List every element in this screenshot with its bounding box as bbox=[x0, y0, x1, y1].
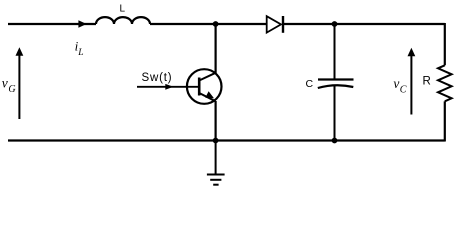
wire diode to top-right corner bbox=[283, 23, 445, 25]
node junction dot bottom capacitor bbox=[332, 138, 338, 144]
voltage arrow vG bbox=[16, 47, 24, 119]
Sw(t) gate drive arrow bbox=[137, 84, 199, 90]
node junction dot bottom emitter bbox=[213, 138, 219, 144]
wire right edge lower bbox=[444, 101, 446, 141]
ground bbox=[207, 141, 225, 185]
diode D1 bbox=[267, 16, 283, 33]
voltage arrow vC bbox=[408, 48, 416, 115]
inductor L bbox=[96, 17, 150, 24]
svg-text:R: R bbox=[423, 76, 431, 88]
svg-text:L: L bbox=[120, 4, 126, 15]
wire right edge upper (to resistor) bbox=[444, 23, 446, 65]
wire inductor to diode bbox=[150, 23, 267, 25]
transistor Q1 (switch) bbox=[187, 69, 222, 104]
wire collector vertical bbox=[215, 24, 217, 73]
node junction dot top capacitor bbox=[332, 21, 338, 27]
transistor emitter arrow bbox=[205, 91, 214, 98]
capacitor C bbox=[318, 24, 354, 141]
svg-text:Sw(t): Sw(t) bbox=[142, 72, 173, 84]
wire bottom rail bbox=[8, 139, 445, 141]
resistor R bbox=[438, 65, 452, 101]
node junction dot top collector bbox=[213, 21, 219, 27]
arrow iL direction on top wire bbox=[78, 20, 86, 27]
svg-text:C: C bbox=[306, 78, 314, 90]
wire emitter vertical bbox=[215, 101, 217, 141]
wire top-left segment bbox=[8, 23, 96, 25]
